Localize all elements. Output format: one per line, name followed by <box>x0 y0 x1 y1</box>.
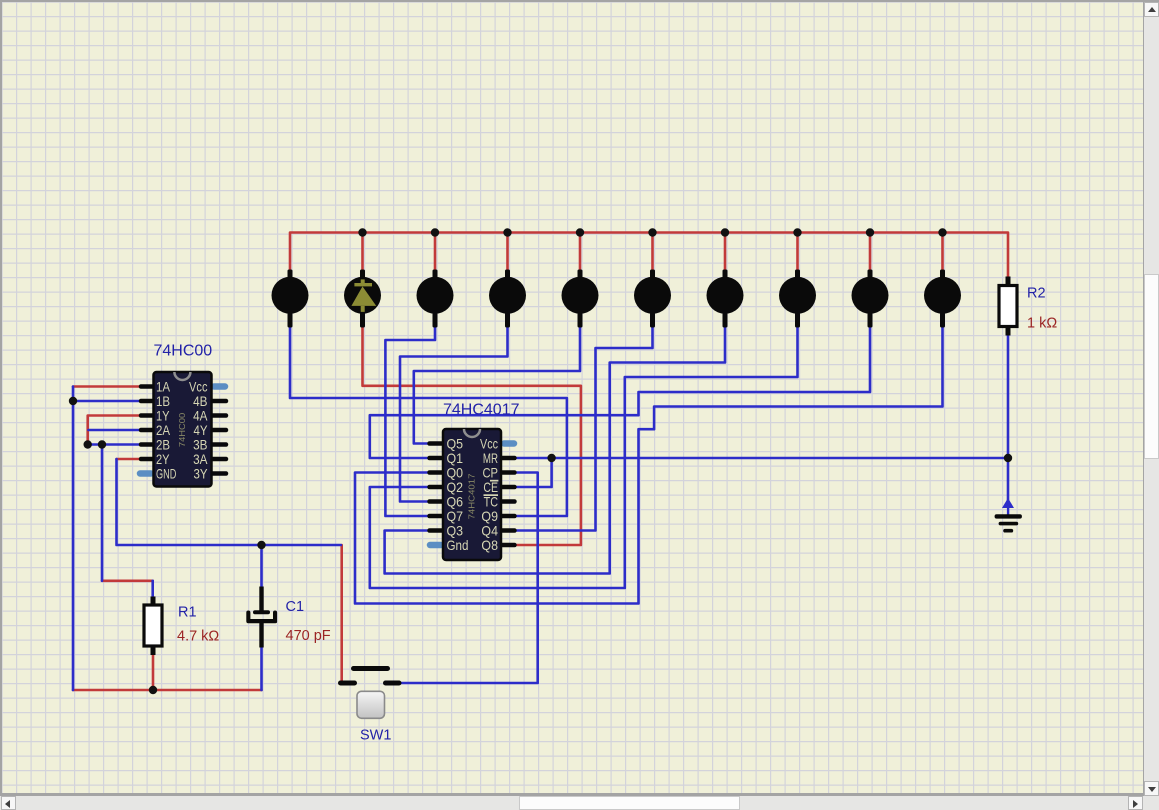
svg-text:Gnd: Gnd <box>447 538 469 553</box>
svg-text:R1: R1 <box>178 605 197 621</box>
svg-text:Q7: Q7 <box>447 508 464 524</box>
svg-text:4Y: 4Y <box>193 423 208 438</box>
svg-text:Q2: Q2 <box>447 479 464 495</box>
svg-text:Q0: Q0 <box>447 465 464 481</box>
svg-text:74HC4017: 74HC4017 <box>443 402 520 419</box>
svg-text:R2: R2 <box>1027 286 1046 302</box>
svg-text:4A: 4A <box>193 409 208 424</box>
svg-text:2Y: 2Y <box>156 452 170 467</box>
svg-text:Q8: Q8 <box>481 537 498 553</box>
svg-text:1Y: 1Y <box>156 408 170 423</box>
svg-text:Q4: Q4 <box>481 523 498 539</box>
svg-text:Q3: Q3 <box>447 523 464 539</box>
svg-text:MR: MR <box>483 451 498 466</box>
svg-text:Q6: Q6 <box>447 494 464 510</box>
svg-text:4.7 kΩ: 4.7 kΩ <box>177 629 219 645</box>
svg-text:4B: 4B <box>193 394 207 409</box>
svg-text:1 kΩ: 1 kΩ <box>1027 316 1057 332</box>
svg-text:Q5: Q5 <box>447 436 464 452</box>
svg-text:Vcc: Vcc <box>189 379 207 394</box>
svg-text:3B: 3B <box>193 438 207 453</box>
svg-text:Q1: Q1 <box>447 450 464 466</box>
svg-text:470 pF: 470 pF <box>286 628 331 644</box>
svg-text:1A: 1A <box>156 379 171 394</box>
svg-text:74HC00: 74HC00 <box>177 413 187 447</box>
svg-text:2B: 2B <box>156 437 170 452</box>
svg-text:Q9: Q9 <box>481 508 498 524</box>
svg-text:74HC00: 74HC00 <box>154 343 213 360</box>
svg-text:3Y: 3Y <box>193 466 208 481</box>
svg-text:TC: TC <box>484 494 499 509</box>
svg-text:Vcc: Vcc <box>480 436 498 451</box>
svg-text:GND: GND <box>156 468 176 482</box>
svg-text:C1: C1 <box>286 599 305 615</box>
svg-text:2A: 2A <box>156 423 171 438</box>
svg-text:SW1: SW1 <box>360 728 391 744</box>
svg-text:74HC4017: 74HC4017 <box>467 474 476 520</box>
svg-text:3A: 3A <box>193 452 208 467</box>
svg-text:1B: 1B <box>156 394 170 409</box>
svg-text:CE: CE <box>483 480 498 496</box>
svg-text:CP: CP <box>482 465 498 480</box>
